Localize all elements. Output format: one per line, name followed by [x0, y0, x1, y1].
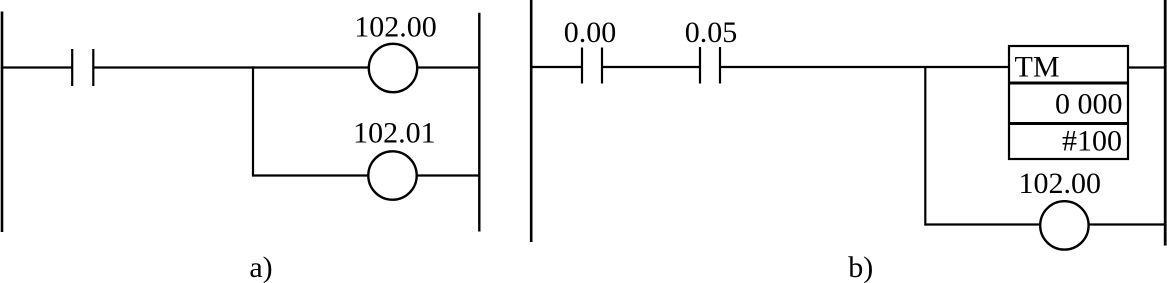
right power rail (rung a): [478, 13, 480, 232]
contact (a): [72, 49, 93, 86]
right power rail (rung b): [1164, 0, 1167, 246]
contact 0.05: [700, 47, 720, 84]
svg-text:a): a): [249, 251, 272, 283]
left power rail (rung b): [530, 0, 533, 242]
svg-text:0.00: 0.00: [564, 16, 617, 49]
svg-text:#100: #100: [1062, 125, 1122, 158]
wire: coil to right rail (b): [1089, 223, 1165, 225]
wire: contact to coil 102.00: [93, 66, 368, 68]
contact 0.00: [582, 48, 602, 84]
wire: coil 102.01 to right rail: [417, 174, 479, 176]
wire: contact 0.00 to contact 0.05: [602, 66, 700, 68]
wire: timer box to right rail: [1129, 66, 1166, 68]
wire: branch junction vertical (b): [924, 66, 926, 226]
svg-text:102.01: 102.01: [353, 116, 436, 149]
wire: branch to coil 102.01: [253, 174, 368, 176]
wire: branch to coil 102.00 (b): [925, 223, 1040, 225]
svg-text:0.05: 0.05: [685, 16, 738, 49]
wire: rail to contact 0.00: [530, 66, 582, 68]
coil C2 102.01: [368, 151, 416, 199]
wire: contact 0.05 to timer box: [720, 66, 1009, 68]
svg-text:TM: TM: [1015, 51, 1060, 84]
svg-text:102.00: 102.00: [1018, 167, 1101, 200]
svg-text:0 000: 0 000: [1055, 88, 1123, 121]
svg-text:102.00: 102.00: [354, 10, 437, 43]
coil C3 102.00 (rung b): [1040, 201, 1088, 249]
wire: branch junction vertical (a): [252, 66, 254, 176]
left power rail (rung a): [1, 12, 4, 233]
wire: coil 102.00 to right rail: [418, 66, 480, 68]
timer box TM: [1008, 46, 1129, 159]
svg-text:b): b): [848, 251, 873, 283]
coil C1 102.00: [369, 44, 417, 92]
wire: rail to contact (a): [1, 66, 72, 68]
